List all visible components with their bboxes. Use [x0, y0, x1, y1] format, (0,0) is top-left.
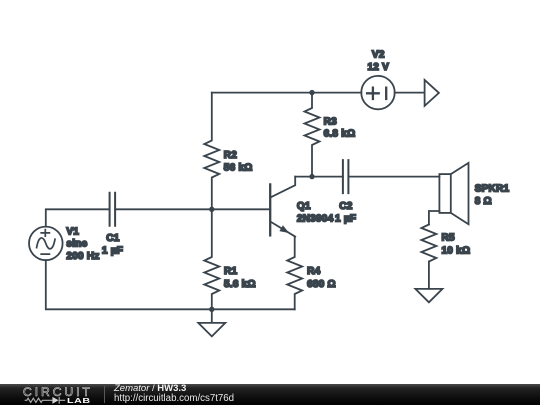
label R4 value — [307, 266, 336, 290]
label SPKR1 value — [475, 183, 510, 207]
wire bottom rail — [46, 260, 295, 309]
svg-text:R4: R4 — [307, 266, 320, 277]
label V1 value — [66, 226, 99, 262]
wire V2 to output port — [395, 92, 425, 94]
capacitor C2 — [343, 160, 349, 193]
ground main — [198, 309, 225, 336]
node dot collector / R3 — [309, 174, 314, 179]
svg-text:8 Ω: 8 Ω — [475, 196, 492, 207]
svg-text:V2: V2 — [372, 50, 385, 61]
svg-text:5.6 kΩ: 5.6 kΩ — [224, 279, 256, 290]
svg-text:C2: C2 — [339, 201, 352, 212]
voltage source V1 — [29, 227, 63, 261]
resistor R1 — [204, 209, 219, 309]
output port flag — [425, 80, 439, 106]
svg-text:R5: R5 — [442, 232, 455, 243]
label Q1 type — [297, 201, 334, 224]
footer url — [114, 393, 234, 404]
logo CIRCUIT text — [23, 385, 93, 399]
footer title — [114, 383, 186, 394]
svg-text:R1: R1 — [224, 266, 237, 277]
node dot top rail / R3 — [309, 90, 314, 95]
ground under R5 — [415, 289, 442, 302]
svg-text:10 kΩ: 10 kΩ — [442, 245, 471, 256]
svg-text:200 Hz: 200 Hz — [66, 251, 99, 262]
wire top rail from R2 top to V2 — [212, 92, 361, 94]
resistor R2 — [204, 93, 219, 210]
svg-text:56 kΩ: 56 kΩ — [224, 162, 253, 173]
wire mid rail C1 to Q1 base — [115, 208, 270, 210]
footer bar — [0, 384, 540, 405]
svg-text:2N3904: 2N3904 — [297, 214, 334, 225]
svg-text:6.8 kΩ: 6.8 kΩ — [324, 129, 356, 140]
svg-text:1 µF: 1 µF — [335, 214, 356, 225]
label R5 value — [442, 232, 471, 256]
logo schematic squiggle — [24, 396, 66, 405]
svg-text:SPKR1: SPKR1 — [475, 183, 510, 194]
node dot bottom rail / R1 ground — [209, 307, 214, 312]
node dot mid rail / R1 R2 — [209, 207, 214, 212]
svg-text:680 Ω: 680 Ω — [307, 279, 336, 290]
label R3 value — [324, 116, 356, 139]
resistor R3 — [305, 93, 320, 177]
svg-text:V1: V1 — [66, 226, 79, 237]
wire C2 to speaker — [348, 176, 439, 178]
resistor R5 — [421, 225, 436, 289]
svg-text:C1: C1 — [106, 233, 119, 244]
wire collector to C2 — [295, 176, 343, 178]
transistor Q1 — [270, 177, 295, 237]
svg-text:R2: R2 — [224, 150, 237, 161]
voltage source V2 — [361, 76, 394, 109]
wire mid rail V1 to C1 — [46, 209, 110, 226]
footer separator — [104, 386, 105, 403]
label R2 value — [224, 150, 253, 173]
capacitor C1 — [110, 193, 116, 226]
wire speaker to R5 — [429, 211, 440, 225]
label C2 value — [335, 201, 356, 224]
speaker SPKR1 — [439, 163, 468, 224]
resistor R4 — [287, 237, 302, 310]
svg-text:1 µF: 1 µF — [102, 245, 123, 256]
label C1 value — [102, 233, 123, 256]
svg-text:R3: R3 — [324, 116, 337, 127]
label V2 value — [368, 50, 390, 73]
svg-text:Q1: Q1 — [297, 201, 311, 212]
label R1 value — [224, 266, 256, 290]
svg-text:12 V: 12 V — [368, 62, 390, 73]
logo LAB text — [67, 396, 91, 405]
svg-text:sine: sine — [66, 239, 87, 250]
